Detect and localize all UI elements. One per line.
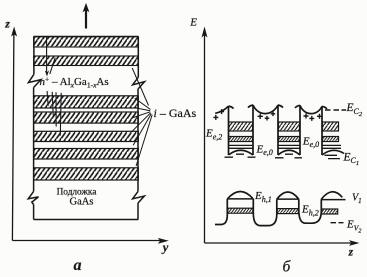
bump2 top arc — [277, 192, 299, 199]
Ec2 dashed level — [325, 109, 346, 111]
break zigzag left upper — [28, 74, 41, 87]
well2 level lines — [279, 145, 300, 148]
z axis (panel a) — [12, 31, 14, 241]
bump2 band Eh2 — [277, 209, 298, 214]
well3 left wall — [322, 106, 327, 155]
z axis arrowhead — [11, 27, 17, 37]
well2 bottom arc — [278, 150, 300, 155]
top emission arrow — [85, 10, 87, 29]
svg-text:i – GaAs: i – GaAs — [154, 106, 197, 120]
plus charges barrier3 — [304, 114, 323, 121]
well1 bottom arc — [229, 150, 254, 155]
svg-text:V1: V1 — [352, 193, 362, 206]
svg-text:EC2: EC2 — [346, 102, 363, 118]
fan lines below n+ label — [47, 91, 48, 106]
svg-text:Ee,0: Ee,0 — [302, 135, 319, 149]
bump3 chord — [321, 199, 345, 201]
bump1 chord — [227, 198, 253, 200]
well3 band Ee2 — [323, 122, 339, 131]
break zigzag left lower — [28, 191, 38, 204]
well1 band lower — [229, 137, 253, 142]
layer L1 hatched — [34, 37, 139, 47]
superlattice layer SL4 — [34, 149, 139, 160]
superlattice layer SL1 — [34, 96, 139, 108]
bump2 right wall + valley2 — [299, 199, 322, 223]
barrier2 top — [253, 105, 278, 114]
well1 band Ee2 — [229, 122, 253, 131]
bump3 top arc — [321, 192, 342, 200]
svg-text:n+ – AlxGa1-xAs: n+ – AlxGa1-xAs — [40, 75, 109, 90]
svg-text:z: z — [348, 246, 354, 258]
block left edge — [33, 37, 35, 220]
well2 band lower — [279, 137, 300, 142]
leader line vertical to n+ label — [46, 37, 48, 73]
Ev2 dashed level — [331, 222, 344, 224]
well3 bottom arc — [322, 150, 344, 155]
svg-text:z: z — [4, 17, 10, 31]
layer L2 hatched — [34, 56, 139, 66]
well2 minus charges — [275, 154, 302, 158]
svg-text:E: E — [189, 17, 197, 29]
bump1 band Eh1 — [228, 208, 253, 213]
well3 level lines — [323, 145, 342, 148]
block top border — [34, 36, 139, 38]
svg-text:EC1: EC1 — [343, 151, 360, 167]
leader line diagonal to n+ label — [50, 58, 55, 75]
well2 right wall — [295, 105, 300, 155]
well2 band Ee2 — [279, 122, 300, 131]
well2 left wall — [278, 105, 283, 155]
svg-text:Eh,1: Eh,1 — [254, 190, 272, 204]
svg-text:Ee,2: Ee,2 — [205, 128, 222, 142]
bump1 right wall + valley1 — [253, 199, 276, 226]
y axis arrowhead — [158, 238, 169, 244]
superlattice layer SL3 — [34, 131, 139, 141]
well3 band lower — [323, 137, 339, 142]
well1 left wall — [229, 106, 234, 155]
svg-text:б: б — [283, 258, 292, 275]
valence band left entry + bump1 left wall — [215, 199, 227, 225]
break zigzag right upper — [133, 77, 145, 89]
block bottom border — [34, 219, 139, 221]
plus charges barrier2 — [258, 112, 276, 121]
barrier3 top — [300, 105, 322, 113]
superlattice layer SL2 — [34, 112, 139, 123]
svg-text:y: y — [161, 240, 169, 254]
well1 minus charges — [225, 154, 256, 157]
svg-text:а: а — [74, 257, 82, 274]
E axis — [204, 31, 206, 243]
bump1 top arc — [227, 192, 253, 200]
block right edge — [137, 37, 139, 220]
superlattice layer SL5 — [34, 168, 139, 180]
y axis (panel a) — [12, 240, 160, 242]
bump3 band — [322, 209, 338, 214]
svg-text:Eh,2: Eh,2 — [301, 204, 319, 218]
well3 minus charges — [325, 155, 341, 158]
break zigzag right lower — [133, 191, 145, 203]
well1 right wall — [248, 105, 253, 155]
leader lines from i-GaAs label — [132, 68, 148, 106]
svg-text:Ee,0: Ee,0 — [256, 143, 273, 157]
svg-text:EV2: EV2 — [346, 219, 361, 235]
svg-text:GaAs: GaAs — [70, 196, 94, 207]
plus charges left stub — [213, 109, 224, 120]
z axis (panel b) — [205, 242, 352, 244]
well1 level lines — [229, 145, 253, 148]
bump2 chord — [277, 198, 299, 200]
conduction band left stub — [215, 106, 228, 113]
